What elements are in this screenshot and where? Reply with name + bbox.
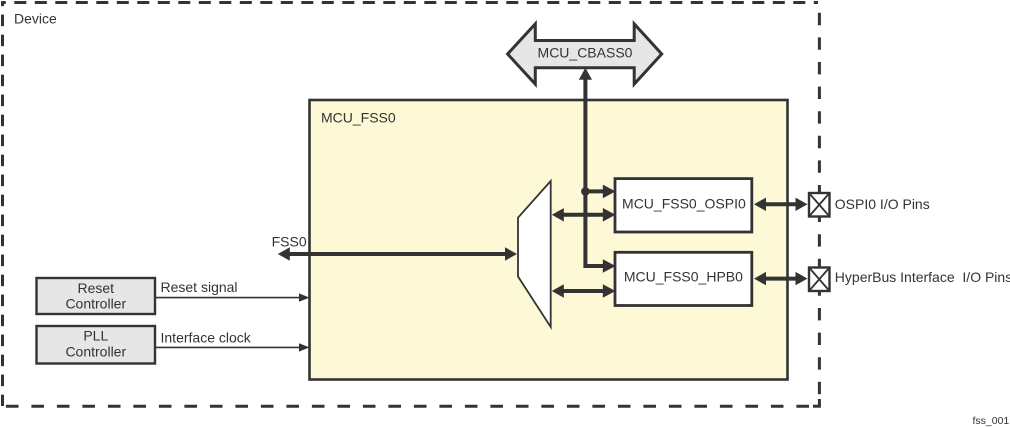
wire Reset signal — [156, 297, 302, 299]
wire Interface clock — [156, 346, 302, 348]
wire HPB0 to pins (double-headed) — [762, 277, 799, 281]
svg-text:MCU_FSS0_OSPI0: MCU_FSS0_OSPI0 — [622, 195, 746, 211]
svg-text:Reset: Reset — [78, 280, 115, 296]
arrowhead into MCU_FSS0_OSPI0 — [603, 185, 616, 199]
arrowhead up into CBASS0 — [579, 68, 592, 80]
svg-text:MCU_CBASS0: MCU_CBASS0 — [538, 45, 633, 61]
svg-text:PLL: PLL — [83, 328, 108, 344]
wire FSS0 (double-headed) — [284, 252, 510, 256]
arrowhead into MCU_FSS0_HPB0 (clock/bus branch) — [603, 259, 616, 273]
svg-text:MCU_FSS0_HPB0: MCU_FSS0_HPB0 — [624, 269, 743, 285]
svg-text:OSPI0 I/O Pins: OSPI0 I/O Pins — [835, 196, 930, 212]
svg-text:MCU_FSS0: MCU_FSS0 — [321, 110, 396, 126]
svg-text:HyperBus Interface I/O Pins: HyperBus Interface I/O Pins — [835, 269, 1010, 285]
wire branch into MCU_FSS0_OSPI0 — [585, 189, 605, 193]
wire mux to OSPI0 (double-headed) — [560, 213, 606, 217]
svg-text:fss_001: fss_001 — [973, 415, 1010, 427]
block MCU_FSS0 — [310, 100, 788, 380]
mux — [518, 181, 551, 327]
svg-text:Interface clock: Interface clock — [161, 330, 252, 346]
wire CBASS0 vertical trunk with bend into HPB0 — [585, 79, 605, 266]
block Reset Controller — [37, 278, 156, 314]
block MCU_FSS0_OSPI0 — [615, 179, 752, 232]
device boundary (dashed) — [1, 1, 821, 406]
pin OSPI0 I/O (box with X) — [809, 193, 830, 217]
pin HyperBus I/O (box with X) — [809, 268, 830, 292]
svg-text:Controller: Controller — [65, 296, 126, 312]
wire mux to HPB0 (double-headed) — [560, 289, 606, 293]
junction dot on trunk — [581, 187, 590, 196]
svg-text:Reset signal: Reset signal — [161, 279, 238, 295]
svg-text:Controller: Controller — [65, 344, 126, 360]
block MCU_FSS0_HPB0 — [615, 252, 752, 305]
svg-text:Device: Device — [14, 11, 57, 27]
bus arrow MCU_CBASS0 — [508, 24, 662, 84]
block PLL Controller — [37, 326, 156, 364]
wire OSPI0 to pins (double-headed) — [762, 202, 799, 206]
svg-text:FSS0: FSS0 — [272, 234, 307, 250]
